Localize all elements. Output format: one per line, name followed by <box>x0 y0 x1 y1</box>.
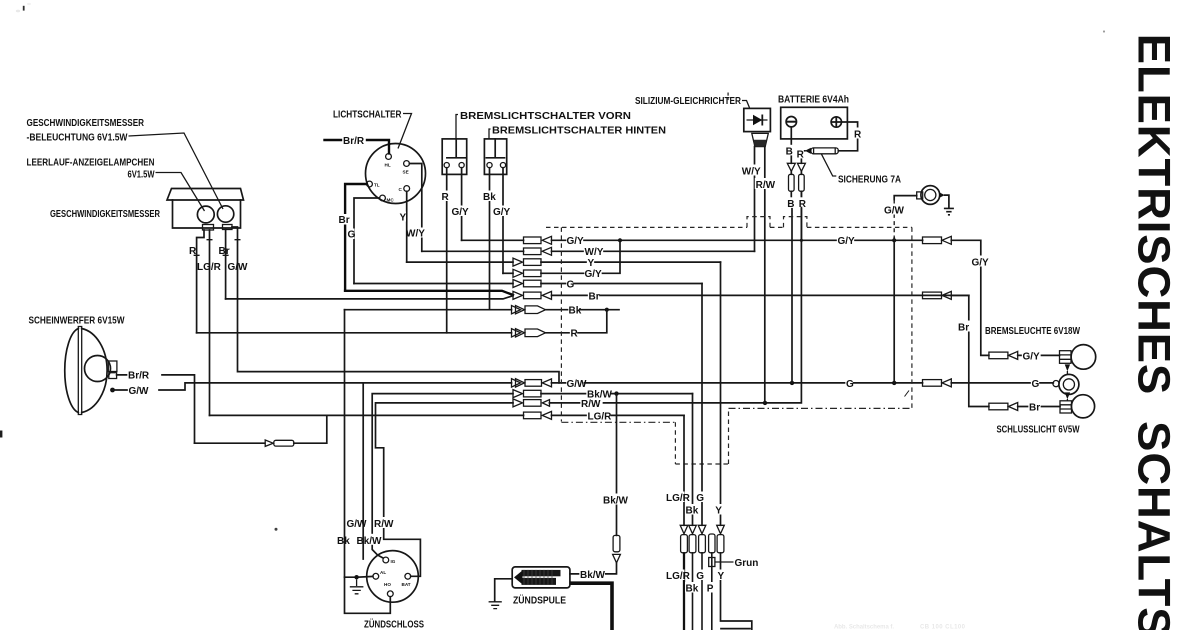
front switch terminals <box>444 163 449 168</box>
leader lichtschalter <box>398 114 412 149</box>
leader leerlauf to left lamp <box>156 173 205 212</box>
node G/Y x horn wire <box>892 238 896 242</box>
svg-text:Y: Y <box>715 506 722 517</box>
harness dashed top edge <box>546 226 912 228</box>
tick marks on speedo wires <box>194 240 241 256</box>
terminal AL <box>373 573 379 579</box>
svg-text:LG/R: LG/R <box>197 262 222 273</box>
row G/Y wire left <box>462 239 524 241</box>
label R <box>796 148 804 159</box>
svg-text:MC: MC <box>387 198 395 203</box>
generator box edge <box>721 628 750 630</box>
svg-text:G: G <box>846 379 854 390</box>
ground at coil <box>489 602 502 609</box>
inline connector on Bk/W <box>613 535 620 551</box>
wire Br/R from headlamp <box>117 375 195 443</box>
svg-text:R: R <box>799 199 807 210</box>
brake bulb socket <box>1060 351 1072 364</box>
wire LG/R row right <box>552 414 685 416</box>
svg-text:BREMSLICHTSCHALTER HINTEN: BREMSLICHTSCHALTER HINTEN <box>492 126 666 137</box>
speedo lamp right (illumination) <box>217 206 233 222</box>
spark plug wire <box>570 583 612 630</box>
svg-text:G/Y: G/Y <box>838 236 856 247</box>
label Y below bullets <box>717 570 725 581</box>
label Bk <box>483 191 495 202</box>
svg-text:G/Y: G/Y <box>1023 351 1041 362</box>
svg-text:G/Y: G/Y <box>972 258 990 269</box>
brake switch rear body <box>484 139 506 175</box>
svg-text:Br: Br <box>1029 402 1040 413</box>
row Bk wire left <box>345 309 512 311</box>
svg-text:SILIZIUM-GLEICHRICHTER: SILIZIUM-GLEICHRICHTER <box>635 96 742 107</box>
svg-text:Y: Y <box>588 258 595 269</box>
headlamp reflector dome <box>82 329 107 413</box>
rear switch plunger <box>486 139 504 158</box>
connector Br harness right <box>923 292 942 299</box>
label Br <box>338 214 350 225</box>
svg-text:Bk: Bk <box>337 536 350 547</box>
terminal C <box>404 186 410 192</box>
terminal TL <box>367 181 373 187</box>
svg-text:R/W: R/W <box>756 180 776 191</box>
svg-text:R/W: R/W <box>374 519 394 530</box>
label Bk above bullets <box>685 504 697 515</box>
label G below bullets <box>696 570 704 581</box>
row R wire left <box>197 332 512 334</box>
node R/W rectifier junction <box>763 401 767 405</box>
label G/W <box>883 204 902 215</box>
tail lamp holder <box>1059 374 1079 394</box>
svg-text:Bk: Bk <box>686 506 699 517</box>
svg-text:Br: Br <box>339 215 350 226</box>
wire Y row right <box>541 261 721 263</box>
wire MC to G <box>354 198 380 284</box>
rear switch terminals <box>487 163 492 168</box>
bullet Y <box>717 535 724 553</box>
svg-text:ZÜNDSPULE: ZÜNDSPULE <box>513 594 566 607</box>
svg-text:LEERLAUF-ANZEIGELAMPCHEN: LEERLAUF-ANZEIGELAMPCHEN <box>27 158 155 169</box>
wire SE to W/Y <box>410 164 422 252</box>
label W/Y <box>741 165 763 176</box>
wire battery plus to fuse <box>838 122 857 151</box>
speedo terminal left <box>203 225 214 231</box>
wire G/W from speedo <box>232 227 559 383</box>
headlamp bulb base <box>108 361 117 372</box>
leader vorn <box>456 115 458 139</box>
row Y wire left <box>407 261 513 263</box>
svg-text:Grun: Grun <box>735 558 759 569</box>
tail bulb <box>1071 395 1094 418</box>
headlamp bulb <box>85 356 111 382</box>
wire Br/R to HL <box>325 140 390 153</box>
wire W/Y from rectifier <box>754 147 756 252</box>
svg-text:AL: AL <box>380 570 386 575</box>
svg-text:6V1.5W: 6V1.5W <box>128 170 155 181</box>
svg-text:Br/R: Br/R <box>343 136 365 147</box>
terminal HL <box>386 154 392 160</box>
svg-text:ELEKTRISCHESSCHALTS: ELEKTRISCHESSCHALTS <box>1129 34 1180 630</box>
wire Bk/W branch down to coil <box>616 394 618 536</box>
connector W/Y row <box>524 248 542 255</box>
rectifier connector wedge <box>752 133 769 146</box>
coil winding bottom <box>522 578 557 585</box>
svg-text:G/W: G/W <box>228 262 249 273</box>
connector Br row <box>513 291 523 299</box>
label Bk/W on branch <box>602 494 626 505</box>
wire R continue <box>800 208 802 241</box>
battery plus terminal <box>831 117 841 127</box>
coil left wedge <box>514 570 523 584</box>
coil winding top <box>522 570 561 576</box>
connector G/Y2 row <box>513 269 523 277</box>
wire B from battery minus <box>790 127 792 163</box>
wire W/Y row right <box>552 250 755 252</box>
svg-text:GESCHWINDIGKEITSMESSER: GESCHWINDIGKEITSMESSER <box>50 209 161 220</box>
battery box <box>781 107 848 139</box>
harness dashed step <box>675 408 728 464</box>
label Br on drop <box>958 321 972 332</box>
harness dashed notch rectifier <box>747 217 770 228</box>
tail bulb socket <box>1060 401 1072 413</box>
bullet arrows <box>680 525 688 534</box>
wire horn to G/W drop <box>894 196 917 200</box>
wire Bk/W to coil <box>570 563 617 574</box>
svg-text:Br: Br <box>219 246 230 257</box>
row W/Y wire left <box>422 250 524 252</box>
row G wire left <box>354 283 513 285</box>
svg-text:SICHERUNG 7A: SICHERUNG 7A <box>838 175 901 186</box>
svg-text:Br: Br <box>958 323 969 334</box>
harness dashed right bottom <box>729 407 912 409</box>
svg-text:Br/R: Br/R <box>128 371 150 382</box>
wire G row right <box>541 283 702 285</box>
speedo lamp left (neutral) <box>197 206 214 223</box>
svg-text:LG/R: LG/R <box>588 411 613 422</box>
svg-text:W/Y: W/Y <box>406 229 425 240</box>
svg-text:BAT: BAT <box>402 582 411 587</box>
label LG/R above bullets <box>666 492 685 503</box>
svg-text:Y: Y <box>400 213 407 224</box>
inline connector on Br/R (lamp feed) <box>195 442 265 444</box>
node headlamp ground dot <box>110 388 115 393</box>
svg-text:G/Y: G/Y <box>567 236 585 247</box>
svg-text:HO: HO <box>384 582 391 587</box>
wire G/Y to bulb <box>1018 354 1060 356</box>
leader beleuchtung to right lamp <box>129 133 224 209</box>
bullet G <box>699 535 706 553</box>
label R <box>798 197 806 208</box>
wire Y long vertical to bullet <box>720 262 722 525</box>
label R/W <box>755 178 778 189</box>
node Bk/R junction <box>605 308 609 312</box>
wire Br to tail bulb <box>1018 406 1060 408</box>
harness dashed notch battery <box>784 217 807 228</box>
headlamp lens bar <box>78 327 81 415</box>
svg-text:CB 100 CL100: CB 100 CL100 <box>920 625 966 630</box>
wire G/Y to tail drop <box>951 240 989 355</box>
wire B down to ground line <box>790 171 793 383</box>
svg-text:LG/R: LG/R <box>666 571 691 582</box>
wire LG/R from speedo <box>209 230 211 415</box>
light switch body <box>366 144 426 204</box>
node Bk/W junction <box>614 391 618 395</box>
svg-text:-BELEUCHTUNG 6V1.5W: -BELEUCHTUNG 6V1.5W <box>27 133 128 144</box>
label Bk below bullets <box>685 582 697 593</box>
svg-text:G/Y: G/Y <box>493 207 511 218</box>
wire R/W row right <box>550 192 802 403</box>
connector Grun on P wire <box>709 558 715 567</box>
row LG/R wire left <box>210 414 524 416</box>
svg-text:B: B <box>786 146 793 157</box>
wire Bk/W row right <box>541 393 693 395</box>
connector brake bulb feed <box>989 352 1008 359</box>
wire R segment <box>800 171 802 197</box>
left edge mark <box>0 431 2 438</box>
wire G/Y row right <box>552 239 923 241</box>
svg-text:Bk/W: Bk/W <box>603 496 629 507</box>
wires below bullets <box>684 553 712 630</box>
terminal SE <box>404 161 410 167</box>
svg-text:BATTERIE 6V4Ah: BATTERIE 6V4Ah <box>778 95 849 106</box>
label G <box>347 229 355 240</box>
svg-text:SE: SE <box>403 170 409 175</box>
speck top-left <box>23 6 25 11</box>
wire R/W from rectifier <box>764 147 766 403</box>
svg-text:IG: IG <box>391 559 396 564</box>
svg-text:BREMSLICHTSCHALTER VORN: BREMSLICHTSCHALTER VORN <box>460 111 631 122</box>
leader fuse <box>822 154 837 176</box>
connector G/W row <box>512 379 521 387</box>
svg-text:LG/R: LG/R <box>666 493 691 504</box>
terminal BAT <box>405 573 411 579</box>
fuse SICHERUNG 7A <box>811 148 838 154</box>
speck right <box>1103 30 1105 32</box>
svg-text:R/W: R/W <box>581 399 601 410</box>
wire G/Y from rear switch <box>502 168 504 274</box>
svg-text:G: G <box>348 230 356 241</box>
wire R row right riser to Bk <box>546 310 607 333</box>
connector Y row <box>513 258 523 266</box>
label G/Y <box>451 206 469 217</box>
svg-text:SCHLUSSLICHT 6V5W: SCHLUSSLICHT 6V5W <box>997 425 1080 436</box>
wire Br to tail drop <box>951 295 989 406</box>
horn <box>921 186 940 205</box>
lamp holder link bottom <box>1065 392 1070 399</box>
connector R row double chevron <box>512 329 521 337</box>
svg-text:P: P <box>707 584 714 595</box>
wire G/W row right <box>552 382 923 384</box>
wire G/Y2 row right <box>541 240 620 273</box>
svg-text:W/Y: W/Y <box>742 167 761 178</box>
label LG/R below bullets <box>666 570 685 581</box>
wire Bk vertical to bullet <box>692 394 694 526</box>
wire switch HO loop <box>345 577 391 613</box>
svg-text:G/W: G/W <box>884 206 905 217</box>
diode symbol <box>747 119 768 121</box>
svg-text:G/Y: G/Y <box>452 207 470 218</box>
svg-text:R: R <box>571 329 579 340</box>
terminal MC <box>380 195 386 201</box>
node G/Y junction <box>618 238 622 242</box>
horn ground <box>939 192 944 197</box>
svg-text:G/W: G/W <box>567 379 588 390</box>
label G/Y on drop <box>971 256 989 267</box>
ignition switch ZUENDSCHLOSS body <box>367 551 419 603</box>
inline connector on B <box>787 163 795 171</box>
wire G/Y from front switch <box>461 168 463 241</box>
inline connector on R <box>797 163 805 171</box>
holder left nub <box>1053 381 1059 387</box>
connector G row <box>513 280 523 288</box>
leader hinten <box>489 129 491 139</box>
ignition switch labels Bk Bk/W <box>337 534 349 545</box>
svg-text:G/Y: G/Y <box>585 269 603 280</box>
svg-text:R: R <box>189 246 197 257</box>
connector G/Y harness right <box>923 237 942 244</box>
wire LG/R vertical to bullet <box>683 415 685 525</box>
headlamp rim arc <box>65 329 79 413</box>
brake switch front body <box>442 139 467 175</box>
dash fragment <box>905 391 910 397</box>
terminal HO <box>387 591 393 597</box>
connector Bk row double chevron <box>512 306 521 314</box>
coil winding hatch <box>524 570 552 585</box>
svg-text:Bk: Bk <box>569 306 582 317</box>
ground at ignition switch <box>350 579 364 593</box>
wire coil to ground <box>495 579 513 601</box>
ignition coil ZUENDSPULE body <box>512 567 570 588</box>
connector Bk/W row <box>513 390 523 398</box>
wire G to tail lamp <box>951 382 1053 384</box>
terminal IG <box>383 557 389 563</box>
svg-text:Y: Y <box>718 571 725 582</box>
wire R/W row left to ignition switch <box>376 403 514 576</box>
wire Br from speedo <box>225 230 227 299</box>
svg-text:HL: HL <box>385 163 391 168</box>
wire Y to generator box <box>721 553 752 630</box>
wire G long vertical to bullet <box>701 284 703 526</box>
battery minus terminal <box>786 117 796 127</box>
svg-text:G: G <box>567 279 575 290</box>
bullet LG/R <box>681 535 688 553</box>
svg-text:Bk/W: Bk/W <box>357 536 383 547</box>
brake bulb <box>1071 345 1096 370</box>
row G/Y2 wire left <box>503 272 513 274</box>
wire fuse to R drop <box>801 151 805 164</box>
label G/Y <box>493 206 511 217</box>
wire C to Y <box>406 191 408 262</box>
speck left-center <box>275 528 278 531</box>
label B <box>786 197 794 208</box>
wire Bk from rear switch <box>489 168 491 310</box>
wire Br lichtschalter into connector <box>345 291 513 295</box>
label R <box>853 128 862 139</box>
bullet Bk <box>689 535 696 553</box>
label R <box>441 191 450 202</box>
wire Br speedo into connector <box>226 296 513 299</box>
svg-text:R: R <box>797 149 805 160</box>
bullet P <box>709 534 715 553</box>
ignition switch labels G/W R/W <box>346 517 365 528</box>
leader rectifier <box>742 101 750 108</box>
svg-text:Bk/W: Bk/W <box>580 570 606 581</box>
wire Bk into switch area <box>345 310 373 578</box>
svg-text:G: G <box>1032 379 1040 390</box>
svg-text:B: B <box>787 199 794 210</box>
label Y <box>399 212 407 222</box>
svg-text:Bk: Bk <box>686 584 699 595</box>
label W/Y <box>405 228 425 238</box>
node ground junction <box>354 575 358 579</box>
svg-text:BREMSLEUCHTE 6V18W: BREMSLEUCHTE 6V18W <box>985 326 1080 337</box>
harness dashdot bottom left <box>561 421 675 423</box>
node horn wire on G line <box>892 381 896 385</box>
svg-text:R: R <box>442 192 450 203</box>
svg-text:G: G <box>696 493 704 504</box>
wire Br row right <box>552 294 969 296</box>
wire G/Y riser to tail <box>922 239 924 241</box>
speedo terminal right <box>223 225 233 230</box>
svg-text:SCHEINWERFER 6V15W: SCHEINWERFER 6V15W <box>29 316 125 327</box>
wire R from front switch <box>446 168 448 333</box>
svg-text:W/Y: W/Y <box>585 247 604 258</box>
connector R/W row <box>513 399 523 407</box>
connector G/Y row <box>524 237 542 244</box>
svg-text:Abb. Schaltschema f.: Abb. Schaltschema f. <box>834 625 894 630</box>
label Y above bullets <box>715 504 723 515</box>
svg-text:R: R <box>854 130 862 141</box>
lamp holder link top <box>1065 364 1070 371</box>
svg-text:Br: Br <box>589 291 600 302</box>
faint ghost text bottom right <box>834 625 966 630</box>
svg-text:LICHTSCHALTER: LICHTSCHALTER <box>333 110 402 121</box>
wire R from speedo <box>197 230 204 333</box>
speck top-center <box>727 93 729 96</box>
label P below bullets <box>706 582 714 593</box>
harness dashed left edge <box>560 227 562 421</box>
rectifier U1 box <box>744 108 771 131</box>
svg-text:TL: TL <box>374 183 380 188</box>
harness dashed right edge <box>911 227 913 408</box>
wire TL Br <box>345 184 367 291</box>
wire G/W to ignition switch <box>362 383 364 559</box>
connector tail bulb feed <box>989 403 1008 410</box>
svg-text:GESCHWINDIGKEITSMESSER: GESCHWINDIGKEITSMESSER <box>27 118 145 129</box>
label G above bullets <box>696 492 704 503</box>
connector LG/R row <box>524 412 542 419</box>
speedometer body <box>167 189 244 229</box>
svg-text:Bk: Bk <box>483 192 496 203</box>
node G/Y x R crossing blob <box>800 239 803 242</box>
front switch plunger <box>447 139 466 158</box>
wire Bk/W row left to ignition switch <box>372 394 513 558</box>
svg-text:G: G <box>696 571 704 582</box>
label B <box>785 145 793 156</box>
node B termination on G line <box>790 381 794 385</box>
svg-text:G/W: G/W <box>129 386 150 397</box>
connector G harness right <box>923 380 942 387</box>
wire Bk row right <box>546 309 620 311</box>
wire G/W from headlamp <box>113 383 512 390</box>
svg-text:ZÜNDSCHLOSS: ZÜNDSCHLOSS <box>364 618 424 630</box>
